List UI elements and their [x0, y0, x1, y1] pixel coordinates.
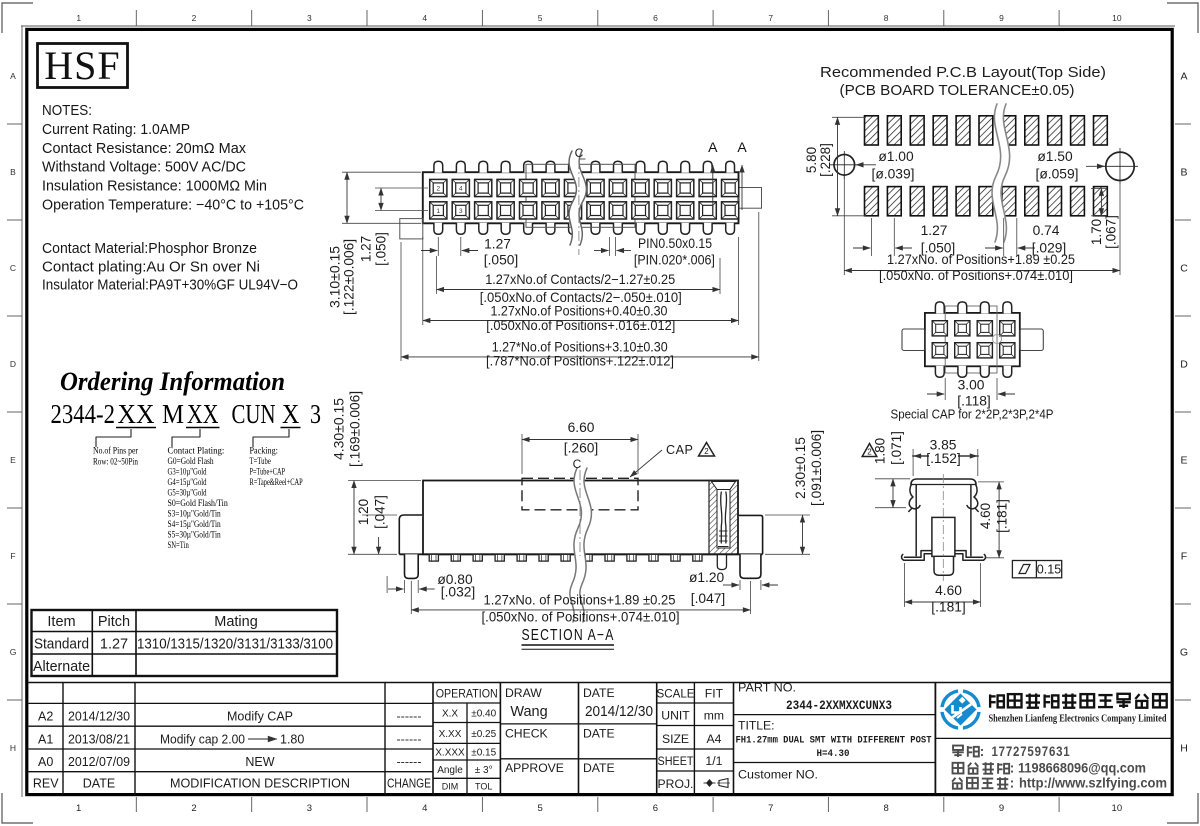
svg-text:1.27xNo. of Positions+1.89 ±0.: 1.27xNo. of Positions+1.89 ±0.25 [484, 593, 676, 608]
svg-text:1.27: 1.27 [100, 637, 128, 653]
pcb vertical dimension 5.80 [832, 116, 866, 118]
special cap contacts [932, 321, 1015, 358]
svg-text:1.27xNo.of Positions+0.40±0.30: 1.27xNo.of Positions+0.40±0.30 [491, 304, 668, 319]
svg-text:NOTES:: NOTES: [42, 102, 92, 119]
svg-text:2013/08/21: 2013/08/21 [68, 732, 130, 746]
svg-text:1.27: 1.27 [484, 236, 511, 251]
svg-text:PROJ.: PROJ. [658, 777, 694, 791]
section left leg diameter 0.80 [404, 580, 406, 593]
svg-text:[.067]: [.067] [1104, 215, 1119, 249]
section contact cavity in end wall [712, 482, 736, 490]
svg-text:Recommended P.C.B Layout(Top S: Recommended P.C.B Layout(Top Side) [820, 65, 1106, 81]
svg-text:HSF: HSF [44, 43, 120, 88]
svg-text:1: 1 [76, 803, 81, 814]
svg-text:DATE: DATE [583, 727, 615, 741]
title block vertical dividers [62, 683, 64, 795]
section right leg diameter 1.20 [739, 580, 741, 590]
svg-text:E: E [10, 455, 16, 465]
svg-text:3.10±0.15: 3.10±0.15 [328, 246, 343, 308]
svg-text:[.118]: [.118] [957, 394, 991, 409]
section cap height dim 2.30 [765, 514, 810, 516]
svg-text:G0=Gold Flash: G0=Gold Flash [168, 457, 214, 467]
svg-text:1.27xNo.of Contacts/2−1.27±0.2: 1.27xNo.of Contacts/2−1.27±0.25 [485, 272, 675, 287]
svg-text:6.60: 6.60 [568, 420, 595, 435]
positions span dimension 0.40 [422, 237, 424, 325]
svg-text:2: 2 [192, 13, 197, 23]
svg-text:10: 10 [1112, 13, 1122, 23]
svg-text:F: F [10, 551, 15, 561]
svg-text:7: 7 [768, 13, 773, 23]
section hatched end wall [709, 481, 738, 555]
pcb pads top row [865, 116, 1108, 145]
terminal height dim 4.60 right [978, 481, 1004, 483]
svg-text:SN=Tin: SN=Tin [168, 541, 189, 551]
svg-text:Pitch: Pitch [98, 614, 130, 630]
scale/unit/size/sheet/proj block [657, 702, 734, 704]
svg-text:2344-2: 2344-2 [51, 399, 116, 429]
svg-text:3: 3 [459, 208, 463, 215]
svg-text:[.050]: [.050] [484, 252, 519, 267]
svg-text:FIT: FIT [705, 687, 724, 701]
terminal clip dim 1.80 [875, 478, 910, 480]
cap warning triangle [699, 443, 715, 457]
svg-text:C: C [575, 146, 584, 160]
top view row pitch dimension 1.27 [375, 187, 428, 189]
svg-text:Contact Resistance: 20mΩ Max: Contact Resistance: 20mΩ Max [42, 140, 246, 157]
svg-text:1.80: 1.80 [280, 732, 304, 746]
svg-text:H=4.30: H=4.30 [817, 748, 850, 760]
terminal right foot [955, 554, 985, 560]
svg-text:SHEET: SHEET [658, 754, 694, 768]
svg-text:PIN0.50x0.15: PIN0.50x0.15 [638, 236, 712, 251]
svg-text:4: 4 [459, 186, 463, 193]
section left leg [405, 554, 419, 578]
svg-text:1.70: 1.70 [1089, 219, 1104, 245]
special cap right tab [1020, 329, 1044, 351]
HSF logo box [38, 44, 128, 88]
svg-text:A: A [10, 71, 16, 81]
title block top border [28, 682, 1172, 684]
terminal body sides [915, 485, 917, 557]
pcb hole left [830, 151, 859, 179]
svg-text:Item: Item [47, 614, 75, 630]
svg-text:A4: A4 [706, 732, 721, 746]
section contact tail pin [717, 554, 726, 569]
special cap width dimension 3.00 [944, 378, 946, 400]
svg-text:C: C [1180, 263, 1188, 275]
pcb overall span dimension [843, 176, 845, 275]
svg-text:SCALE: SCALE [657, 687, 695, 701]
svg-text:2014/12/30: 2014/12/30 [68, 710, 130, 724]
svg-text:1: 1 [436, 208, 440, 215]
cap leader and label [630, 450, 662, 477]
company contact email [953, 762, 1010, 773]
svg-text:6: 6 [653, 803, 658, 814]
svg-text:0.15: 0.15 [1037, 563, 1062, 577]
svg-text:4.60: 4.60 [978, 503, 993, 529]
svg-text:C: C [573, 457, 582, 471]
svg-text:Current Rating: 1.0AMP: Current Rating: 1.0AMP [42, 121, 190, 138]
svg-text:1.80: 1.80 [873, 438, 888, 464]
terminal bottom width dim 4.60 [904, 563, 906, 607]
svg-text:Special CAP for 2*2P,2*3P,2*4P: Special CAP for 2*2P,2*3P,2*4P [891, 408, 1054, 422]
svg-text:Insulation Resistance: 1000MΩ: Insulation Resistance: 1000MΩ Min [42, 178, 267, 195]
svg-text:4.60: 4.60 [935, 583, 962, 598]
svg-text:±0.15: ±0.15 [471, 748, 496, 759]
svg-text:CAP: CAP [666, 443, 693, 457]
svg-text:1310/1315/1320/3131/3133/3100: 1310/1315/1320/3131/3133/3100 [137, 637, 333, 653]
svg-text:H: H [1180, 743, 1188, 755]
special cap body [925, 313, 1020, 366]
terminal post tail [934, 556, 954, 575]
pcb pads bottom row [865, 187, 1108, 216]
section centerline [579, 470, 581, 556]
svg-text:[ø.039]: [ø.039] [872, 167, 915, 182]
svg-text:2014/12/30: 2014/12/30 [585, 704, 653, 720]
special cap center mark [993, 335, 1002, 344]
svg-text:Modify CAP: Modify CAP [227, 710, 293, 724]
terminal right clip arm [967, 484, 978, 509]
pcb pad height dimension 1.70 [1091, 187, 1107, 189]
svg-text:[.047]: [.047] [373, 495, 388, 529]
svg-text:5: 5 [537, 803, 542, 814]
terminal centerline [942, 474, 944, 581]
projection symbol [704, 779, 731, 788]
special cap pins [935, 302, 1011, 377]
top view contact grid [430, 179, 739, 219]
svg-text:Modify cap 2.00: Modify cap 2.00 [160, 732, 245, 746]
hole diameter label 1.00 [856, 164, 876, 166]
section overall height dim 4.30 [348, 480, 421, 482]
svg-text:Customer NO.: Customer NO. [738, 768, 818, 782]
svg-text:3: 3 [307, 803, 312, 814]
svg-text:1.27: 1.27 [921, 223, 948, 238]
svg-text:8: 8 [884, 803, 889, 814]
section span dimension [410, 581, 412, 614]
svg-text:ø1.50: ø1.50 [1037, 149, 1073, 164]
contacts span dimension [436, 256, 438, 294]
section bottom line [399, 553, 762, 555]
svg-text:DIM: DIM [442, 782, 459, 792]
svg-text:2012/07/09: 2012/07/09 [68, 755, 130, 769]
svg-text:FH1.27mm DUAL SMT WITH DIFFERE: FH1.27mm DUAL SMT WITH DIFFERENT POST [736, 735, 932, 747]
section break line [570, 468, 592, 622]
svg-text:S0=Gold Flash/Tin: S0=Gold Flash/Tin [168, 499, 228, 509]
svg-text:X.XXX: X.XXX [435, 748, 465, 759]
svg-text:DATE: DATE [583, 761, 615, 775]
special cap outline rect [945, 306, 997, 373]
svg-text:R=Tape&Reel+CAP: R=Tape&Reel+CAP [250, 478, 303, 488]
svg-text:[.050]: [.050] [374, 232, 389, 266]
svg-text:Standard: Standard [34, 637, 89, 653]
svg-text:P=Tube+CAP: P=Tube+CAP [250, 468, 286, 478]
svg-text:TOL: TOL [475, 782, 492, 792]
item pitch mating table [32, 610, 338, 676]
svg-text:mm: mm [704, 709, 724, 723]
svg-text:5: 5 [538, 13, 543, 23]
svg-text:[.260]: [.260] [564, 441, 599, 456]
svg-text:ø1.20: ø1.20 [689, 570, 725, 585]
svg-text:------: ------ [397, 732, 422, 746]
svg-text:[.122±0.006]: [.122±0.006] [342, 239, 357, 315]
svg-text:[.091±0.006]: [.091±0.006] [809, 430, 824, 506]
svg-text:1: 1 [76, 13, 81, 23]
svg-text:2: 2 [704, 447, 709, 456]
svg-text:10: 10 [1112, 803, 1123, 814]
svg-text:CUN: CUN [232, 399, 276, 429]
svg-text:Angle: Angle [437, 765, 463, 776]
svg-text:PART NO.: PART NO. [738, 681, 796, 695]
svg-text:S5=30µ"Gold/Tin: S5=30µ"Gold/Tin [168, 531, 221, 541]
svg-text:1.20: 1.20 [356, 499, 371, 525]
draw/check/approve block [500, 723, 656, 725]
svg-text:1.27xNo. of Positions+1.89 ±0.: 1.27xNo. of Positions+1.89 ±0.25 [887, 252, 1075, 267]
svg-text:2: 2 [436, 186, 440, 193]
svg-text:17727597631: 17727597631 [992, 743, 1071, 759]
section right standoff boss [738, 515, 763, 554]
svg-text:REV: REV [33, 777, 59, 791]
terminal center post [932, 517, 955, 556]
svg-text:D: D [1180, 359, 1188, 371]
top view connector body [423, 172, 739, 223]
svg-text:[.050xNo. of Positions+.074±.0: [.050xNo. of Positions+.074±.010] [482, 610, 680, 625]
svg-text:0.74: 0.74 [1033, 223, 1060, 238]
hole diameter label 1.50 [1086, 165, 1105, 167]
svg-text:APPROVE: APPROVE [505, 761, 564, 775]
company contact website [952, 777, 1008, 788]
svg-text:[.050xNo.of Positions+.016±.01: [.050xNo.of Positions+.016±.012] [486, 318, 675, 333]
top view break line [569, 151, 586, 245]
svg-text:S3=10µ"Gold/Tin: S3=10µ"Gold/Tin [168, 510, 221, 520]
section cut line A left [712, 165, 714, 210]
section boss height dim 1.20 [362, 514, 397, 516]
svg-text:[.152]: [.152] [926, 451, 961, 466]
top view height dimension 3.10 [342, 171, 421, 173]
svg-text::: : [1010, 776, 1015, 791]
svg-text:Insulator Material:PA9T+30%GF: Insulator Material:PA9T+30%GF UL94V−O [42, 277, 298, 294]
svg-text:A1: A1 [38, 732, 53, 746]
svg-text:1/1: 1/1 [705, 754, 722, 768]
svg-text:B: B [10, 167, 16, 177]
svg-text:DATE: DATE [583, 686, 615, 700]
svg-text:Contact Material:Phosphor Bron: Contact Material:Phosphor Bronze [42, 240, 257, 257]
svg-text:A0: A0 [38, 755, 53, 769]
svg-text:ø1.00: ø1.00 [878, 149, 914, 164]
svg-text:XX: XX [118, 399, 155, 429]
svg-text:Ordering Information: Ordering Information [60, 367, 285, 396]
svg-text:------: ------ [397, 710, 422, 724]
svg-text:4.30±0.15: 4.30±0.15 [332, 398, 347, 460]
pin size dimension PIN0.50x0.15 [609, 237, 611, 256]
section cap width dim 6.60 [521, 434, 523, 474]
svg-text:X: X [282, 399, 300, 429]
section contact beams [721, 492, 722, 543]
svg-text:[.787*No.of Positions+.122±.01: [.787*No.of Positions+.122±.012] [486, 354, 674, 369]
top view cap outline [526, 164, 635, 227]
svg-text:SIZE: SIZE [662, 732, 689, 746]
terminal top bar [911, 479, 976, 485]
svg-text:3: 3 [307, 13, 312, 23]
svg-text::: : [980, 744, 985, 759]
svg-text:[.181]: [.181] [995, 499, 1010, 533]
section body outline [423, 481, 738, 555]
svg-text:5.80: 5.80 [804, 147, 819, 173]
svg-text:X.X: X.X [442, 709, 458, 720]
svg-text:G: G [1180, 647, 1188, 659]
svg-text:TITLE:: TITLE: [738, 719, 775, 733]
svg-text:[.169±0.006]: [.169±0.006] [348, 391, 363, 467]
svg-text:F: F [1181, 551, 1187, 563]
svg-text:G4=15µ"Gold: G4=15µ"Gold [168, 478, 207, 488]
svg-text:B: B [1180, 167, 1187, 179]
svg-text:[.050xNo. of Positions+.074±.0: [.050xNo. of Positions+.074±.010] [879, 268, 1073, 283]
svg-text:[.047]: [.047] [691, 591, 726, 606]
svg-text:± 3°: ± 3° [475, 765, 493, 776]
company chinese name [990, 693, 1167, 708]
svg-text:[ø.059]: [ø.059] [1036, 167, 1079, 182]
overall length dimension 3.10 span [400, 242, 402, 361]
svg-text:±0.25: ±0.25 [471, 729, 496, 740]
svg-text:±0.40: ±0.40 [471, 709, 496, 720]
leader brackets from code to legends [96, 429, 131, 447]
section cut line A right [741, 165, 743, 210]
svg-text:Withstand Voltage: 500V AC/DC: Withstand Voltage: 500V AC/DC [42, 159, 246, 176]
pin pitch dimension 1.27 [437, 237, 439, 256]
svg-text:X.XX: X.XX [439, 729, 462, 740]
svg-text:1.27: 1.27 [359, 236, 374, 262]
top view left polarization notch [400, 219, 423, 239]
pcb hole right [1102, 148, 1138, 184]
top view right polarization notch [739, 188, 762, 209]
svg-text:G5=30µ"Gold: G5=30µ"Gold [168, 489, 207, 499]
svg-text:H: H [10, 743, 16, 753]
svg-text:4: 4 [422, 13, 427, 23]
svg-text:[PIN.020*.006]: [PIN.020*.006] [634, 252, 715, 267]
terminal warning triangle [862, 444, 877, 457]
pcb pad offset dimension 0.74 [1003, 218, 1005, 256]
svg-text::: : [1010, 761, 1015, 776]
section right leg [740, 554, 761, 578]
special cap left tab [902, 329, 925, 351]
svg-text:A: A [1180, 71, 1187, 83]
svg-text:------: ------ [397, 755, 422, 769]
svg-text:A2: A2 [38, 710, 53, 724]
svg-text:9: 9 [999, 13, 1004, 23]
svg-text:M: M [162, 399, 184, 429]
svg-text:DRAW: DRAW [505, 686, 542, 700]
svg-text:XX: XX [187, 399, 219, 429]
revision table rows [28, 702, 433, 704]
svg-text:[.071]: [.071] [889, 431, 904, 465]
svg-text:1198668096@qq.com: 1198668096@qq.com [1018, 760, 1146, 776]
svg-text:OPERATION: OPERATION [436, 687, 498, 701]
svg-text:Wang: Wang [510, 704, 547, 720]
company contact phone [952, 746, 979, 757]
svg-text:(PCB BOARD TOLERANCE±0.05): (PCB BOARD TOLERANCE±0.05) [840, 83, 1075, 99]
svg-text:[.228]: [.228] [818, 143, 833, 177]
svg-text:No.of Pins per: No.of Pins per [93, 446, 139, 457]
svg-text:D: D [10, 359, 16, 369]
svg-text:E: E [1180, 455, 1187, 467]
svg-text:Row: 02~50Pin: Row: 02~50Pin [93, 458, 138, 468]
svg-text:CHECK: CHECK [505, 727, 548, 741]
svg-text:T=Tube: T=Tube [250, 457, 271, 467]
top view bottom row pins [434, 223, 735, 235]
svg-text:MODIFICATION DESCRIPTION: MODIFICATION DESCRIPTION [170, 777, 350, 791]
svg-text:2344-2XXMXXCUNX3: 2344-2XXMXXCUNX3 [786, 698, 892, 713]
terminal left foot [902, 554, 932, 560]
terminal width dim 3.85 [912, 449, 914, 476]
svg-text:6: 6 [653, 13, 658, 23]
section solder teeth [429, 554, 702, 561]
company logo [938, 688, 983, 731]
svg-text:C: C [10, 263, 16, 273]
tolerance operation table [433, 702, 500, 704]
company block divider [935, 737, 1172, 739]
svg-text:Packing:: Packing: [250, 447, 278, 457]
svg-text:Shenzhen Lianfeng Electronics: Shenzhen Lianfeng Electronics Company Li… [989, 714, 1167, 725]
svg-text:[.181]: [.181] [931, 600, 966, 615]
svg-text:SECTION A−A: SECTION A−A [522, 627, 615, 644]
svg-text:Contact Plating:: Contact Plating: [168, 447, 225, 457]
svg-text:3: 3 [310, 399, 321, 429]
svg-text:G: G [10, 647, 17, 657]
pcb pad pitch dimension 1.27 [870, 218, 872, 256]
svg-text:Mating: Mating [214, 614, 258, 630]
svg-text:Alternate: Alternate [33, 659, 90, 675]
svg-text:[.032]: [.032] [441, 585, 476, 600]
svg-text:G3=10µ"Gold: G3=10µ"Gold [168, 468, 207, 478]
svg-text:CHANGE: CHANGE [387, 777, 431, 791]
svg-text:4: 4 [422, 803, 427, 814]
top view top row pins [434, 161, 735, 173]
svg-text:2: 2 [191, 803, 196, 814]
terminal left clip arm [909, 484, 920, 509]
section left standoff boss [399, 515, 423, 554]
svg-text:NEW: NEW [245, 755, 274, 769]
svg-text:2.30±0.15: 2.30±0.15 [793, 437, 808, 499]
pcb layout break line [992, 104, 1010, 242]
svg-text:8: 8 [884, 13, 889, 23]
flatness feature control frame [1012, 561, 1061, 578]
svg-text:http://www.szlfying.com: http://www.szlfying.com [1019, 775, 1167, 791]
svg-text:DATE: DATE [83, 777, 115, 791]
underlines under code digits [116, 427, 156, 429]
section cap dashed outline [522, 478, 638, 510]
svg-text:9: 9 [999, 803, 1004, 814]
svg-text:S4=15µ"Gold/Tin: S4=15µ"Gold/Tin [168, 520, 221, 530]
svg-text:Operation Temperature: −40°C t: Operation Temperature: −40°C to +105°C [42, 197, 304, 214]
svg-text:3.00: 3.00 [958, 378, 985, 393]
svg-text:A: A [708, 139, 718, 155]
svg-text:1.27*No.of Positions+3.10±0.30: 1.27*No.of Positions+3.10±0.30 [492, 340, 668, 355]
svg-text:UNIT: UNIT [661, 709, 690, 723]
svg-text:A: A [737, 139, 747, 155]
svg-text:7: 7 [768, 803, 773, 814]
svg-text:Contact plating:Au Or Sn over: Contact plating:Au Or Sn over Ni [42, 259, 260, 276]
